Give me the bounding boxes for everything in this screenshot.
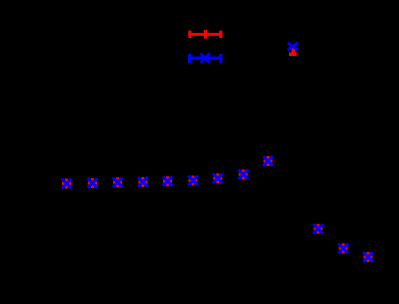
- data point 7: [213, 173, 223, 183]
- data point 11: [313, 224, 323, 234]
- data point 3: [113, 177, 123, 187]
- data point 4: [138, 177, 148, 187]
- data point 9: [263, 156, 273, 166]
- data point 1: [62, 179, 72, 189]
- legend blue errorbar sample: [188, 53, 223, 63]
- legend red errorbar sample: [188, 30, 222, 39]
- data point 12: [338, 243, 348, 253]
- data point 13: [363, 252, 373, 262]
- data point 2: [88, 178, 98, 188]
- data point 5: [163, 176, 173, 186]
- data point 8: [238, 169, 248, 179]
- data point 6: [188, 176, 198, 186]
- data point 10 (red errorbar cap below blue marker): [288, 43, 298, 55]
